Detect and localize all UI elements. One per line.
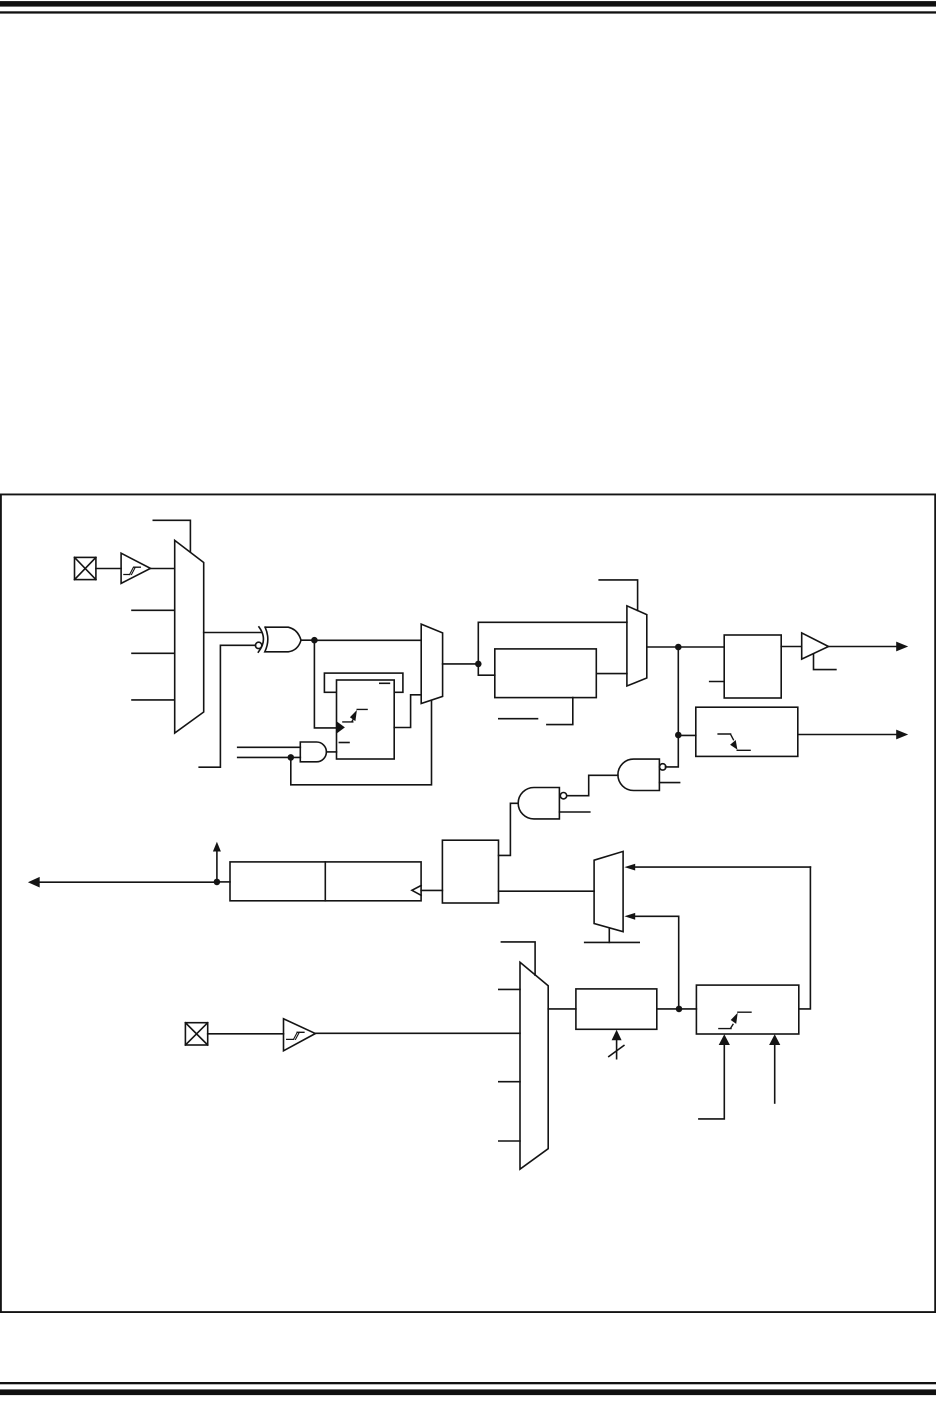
wire mux B output to node C (443, 663, 479, 665)
schmitt buffer U3 (284, 1019, 316, 1051)
box behind flip-flop (toggle control) (324, 673, 403, 692)
falling edge symbol inside box E (718, 734, 750, 750)
label overbar inside FF1 left (339, 742, 349, 744)
node D (T1GVAL junction) (675, 644, 682, 651)
register TMR1H:TMR1L (230, 862, 421, 901)
wire pin T1G to buffer (96, 568, 121, 570)
wire T1CKPS arrow into prescaler with bus slash (609, 1030, 624, 1059)
xnor gate G1 (xor with inverted input, T1GPOL) (255, 627, 301, 652)
page footer thick rule (0, 1389, 936, 1395)
wire enable stub under buffer U2 (814, 654, 836, 670)
wire mux C output to box D (647, 646, 724, 648)
arrowhead mux D input 2 (624, 913, 635, 920)
wire synchronize box output feedback up (799, 867, 811, 1009)
clock wedge of FF1 (337, 721, 345, 733)
rising edge symbol inside FF1 (343, 709, 367, 722)
wire prescaler to synchronize box (657, 1008, 697, 1010)
wire arrow up from node F (213, 842, 221, 882)
wire mux input 3 stub (132, 652, 175, 654)
node E (interrupt branch junction) (675, 732, 682, 739)
page header thin rule (0, 11, 936, 13)
wire mux E output to prescaler (548, 1008, 576, 1010)
mux C (T1GSPM mux) (627, 606, 647, 686)
wire T1GPOL to xnor inverted input (199, 645, 255, 767)
mux D (T1SYNC mux, left-facing) (594, 851, 623, 931)
pin T1G (crossed input box) (75, 557, 96, 579)
label overbar inside FF1 top right (380, 682, 390, 684)
mux T1GSS (gate source select) (175, 540, 204, 733)
wire box F to register clock (421, 889, 442, 891)
wire pin T1CKI to buffer U3 (208, 1033, 284, 1035)
box D (T1GVAL latch) (724, 635, 781, 698)
wire buffer U2 output arrow right (829, 642, 909, 652)
wire buffer to mux T1GSS (151, 568, 175, 570)
and gate G2 (300, 742, 326, 762)
node A (xnor output junction) (311, 637, 318, 644)
wire nand G4 output to acq control box (499, 803, 519, 855)
wire nand G4 input 2 stub (559, 811, 589, 813)
wire register to node F (217, 881, 230, 883)
select tick T1SYNC (608, 928, 610, 942)
flip-flop FF1 (single pulse / toggle) (337, 680, 395, 759)
node F (register output junction) (214, 879, 221, 886)
wire box D to buffer U2 (781, 646, 802, 648)
box synchronize det (696, 985, 798, 1034)
wire mux D output to box F (499, 890, 595, 892)
wire mux input 2 stub (132, 609, 175, 611)
wire nand G3 input 2 stub (659, 782, 679, 784)
wire mux E input 1 stub (499, 988, 520, 990)
wire prescaled clock to mux D input 2 (634, 916, 679, 1009)
wire and gate input 1 (238, 746, 301, 748)
mux E (TMR1CS clock source mux) (520, 962, 548, 1169)
wire mux E input 3 stub (499, 1081, 520, 1083)
box prescaler 1,2,4,8 (576, 989, 657, 1029)
wire node C up to mux C input 1 (478, 622, 627, 664)
wire box E output arrow right (798, 730, 908, 740)
box F (acquisition control) (442, 840, 498, 903)
schmitt buffer U1 (121, 553, 150, 583)
wire Fosc/2 arrow into synchronize box (699, 1034, 730, 1119)
clock chevron of register (412, 886, 421, 896)
wire FF1 Q output to mux B (394, 695, 421, 728)
arrowhead mux D input 1 (624, 864, 635, 871)
select line T1GSS (153, 520, 190, 552)
wire mux input 4 stub (132, 699, 175, 701)
page header thick rule (0, 1, 936, 7)
wire nand G3 output to nand G4 (567, 775, 618, 795)
label line T1GGO (499, 718, 538, 720)
wire mux E input 4 stub (499, 1140, 520, 1142)
pin T1CKI (crossed input box) (185, 1023, 207, 1045)
wire synchronized feedback to mux D input 1 (634, 866, 811, 868)
node G (prescaler output junction) (676, 1006, 683, 1013)
wire node B to mux B select (291, 701, 432, 785)
box E (falling edge detect / interrupt) (696, 707, 798, 756)
nand G4 (left-facing, inverted input) (518, 788, 567, 819)
buffer U2 (802, 633, 829, 659)
wire node A down to flip-flop clock (314, 640, 336, 728)
wire node D down to node E and nand G3 (665, 647, 678, 767)
label line T1SYNC (585, 941, 640, 943)
wire node E to falling edge box (678, 734, 696, 736)
node C (mux B output junction) (475, 661, 482, 668)
wire node C down to single pulse box (478, 664, 495, 675)
wire T1GGO stub below box (547, 698, 573, 725)
nand G3 (left-facing, inverted input) (618, 759, 666, 790)
wire and gate output to FF1 (326, 751, 336, 753)
wire sleep input arrow into synchronize box (769, 1034, 780, 1103)
box single pulse acq control (495, 649, 597, 698)
node B (and input branch junction) (288, 754, 295, 761)
figure border frame (1, 494, 935, 1312)
wire single pulse box output to mux C input 2 (596, 673, 627, 675)
wire and gate input 2 (238, 756, 301, 758)
page footer thin rule (0, 1382, 936, 1384)
wire mux T1GSS output to xnor (204, 632, 262, 634)
wire overflow arrow left (28, 877, 217, 888)
rising edge symbol inside synchronize box (719, 1012, 751, 1028)
select line TMR1CS (501, 942, 535, 975)
wire buffer U3 to mux E input 2 (315, 1032, 520, 1034)
wire TMR1ON stub into box D (710, 681, 725, 683)
select line T1GSPM (599, 580, 637, 611)
wire xnor output to mux B (301, 639, 421, 641)
mux B (toggle bypass mux) (421, 624, 442, 703)
